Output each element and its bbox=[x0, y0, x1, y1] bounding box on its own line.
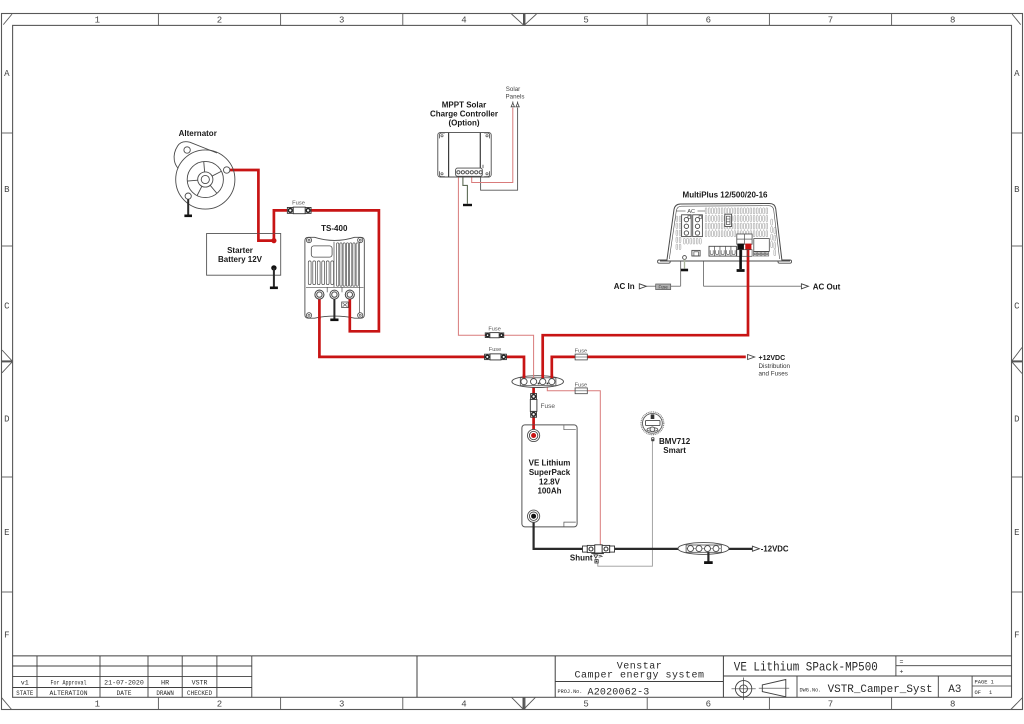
svg-text:AC: AC bbox=[687, 209, 695, 215]
svg-text:Distribution: Distribution bbox=[759, 363, 791, 370]
svg-text:Battery 12V: Battery 12V bbox=[218, 255, 263, 264]
svg-text:Shunt: Shunt bbox=[570, 553, 593, 562]
svg-text:CHECKED: CHECKED bbox=[187, 690, 212, 697]
svg-text:VE Lithium: VE Lithium bbox=[529, 459, 571, 468]
svg-text:Charge Controller: Charge Controller bbox=[430, 109, 498, 118]
svg-text:1: 1 bbox=[989, 690, 992, 696]
svg-text:Fuse: Fuse bbox=[575, 349, 587, 355]
svg-text:VSTR_Camper_Syst: VSTR_Camper_Syst bbox=[828, 684, 933, 696]
svg-text:VSTR: VSTR bbox=[192, 680, 208, 687]
svg-text:B: B bbox=[1014, 185, 1020, 195]
svg-text:+12VDC: +12VDC bbox=[759, 355, 786, 362]
svg-text:7: 7 bbox=[828, 16, 833, 26]
svg-text:12.8V: 12.8V bbox=[539, 477, 561, 486]
svg-text:Solar: Solar bbox=[506, 86, 520, 93]
svg-text:STATE: STATE bbox=[16, 690, 33, 697]
svg-text:OF: OF bbox=[975, 690, 981, 696]
svg-text:E: E bbox=[1014, 528, 1019, 538]
svg-text:6: 6 bbox=[706, 16, 711, 26]
svg-text:SuperPack: SuperPack bbox=[529, 468, 571, 477]
svg-text:C: C bbox=[1014, 302, 1020, 312]
svg-text:MultiPlus 12/500/20-16: MultiPlus 12/500/20-16 bbox=[683, 190, 768, 199]
svg-text:Smart: Smart bbox=[663, 446, 686, 455]
svg-text:AC In: AC In bbox=[614, 282, 635, 291]
svg-text:2: 2 bbox=[217, 700, 222, 710]
svg-text:A2020062-3: A2020062-3 bbox=[588, 687, 650, 698]
svg-text:4: 4 bbox=[461, 16, 466, 26]
svg-text:4: 4 bbox=[461, 700, 466, 710]
svg-text:E: E bbox=[4, 528, 9, 538]
svg-text:(Option): (Option) bbox=[448, 118, 479, 127]
svg-text:A: A bbox=[4, 69, 10, 79]
svg-text:Fuse: Fuse bbox=[575, 382, 587, 388]
svg-text:=: = bbox=[900, 658, 904, 665]
svg-text:VE Lithium SPack-MP500: VE Lithium SPack-MP500 bbox=[734, 660, 878, 674]
svg-text:DATE: DATE bbox=[117, 690, 132, 697]
svg-text:1: 1 bbox=[95, 700, 100, 710]
svg-text:2: 2 bbox=[217, 16, 222, 26]
svg-text:Starter: Starter bbox=[227, 246, 253, 255]
svg-text:8: 8 bbox=[950, 700, 955, 710]
svg-text:100Ah: 100Ah bbox=[537, 487, 561, 496]
svg-text:MPPT Solar: MPPT Solar bbox=[442, 100, 486, 109]
svg-text:F: F bbox=[4, 631, 9, 641]
svg-text:F: F bbox=[1014, 631, 1019, 641]
svg-text:5: 5 bbox=[583, 16, 588, 26]
svg-text:DWG.No.: DWG.No. bbox=[800, 687, 822, 693]
svg-text:ALTERATION: ALTERATION bbox=[50, 690, 88, 697]
svg-text:C: C bbox=[4, 302, 10, 312]
svg-text:+: + bbox=[900, 669, 904, 676]
svg-text:D: D bbox=[1014, 415, 1019, 425]
svg-text:B: B bbox=[4, 185, 10, 195]
svg-text:For Approval: For Approval bbox=[51, 680, 87, 687]
svg-text:D: D bbox=[4, 415, 9, 425]
svg-text:21-07-2020: 21-07-2020 bbox=[104, 680, 144, 687]
svg-text:PROJ.No.: PROJ.No. bbox=[558, 689, 583, 695]
svg-text:6: 6 bbox=[706, 700, 711, 710]
svg-text:BMV712: BMV712 bbox=[659, 437, 691, 446]
svg-text:Fuse: Fuse bbox=[488, 326, 500, 332]
svg-text:7: 7 bbox=[828, 700, 833, 710]
svg-text:A: A bbox=[1014, 69, 1020, 79]
svg-text:Camper energy system: Camper energy system bbox=[574, 671, 704, 682]
svg-text:A3: A3 bbox=[948, 684, 961, 696]
svg-text:Alternator: Alternator bbox=[179, 129, 217, 138]
svg-text:1: 1 bbox=[95, 16, 100, 26]
svg-text:v1: v1 bbox=[21, 680, 29, 687]
svg-text:3: 3 bbox=[339, 700, 344, 710]
svg-text:3: 3 bbox=[339, 16, 344, 26]
svg-text:8: 8 bbox=[950, 16, 955, 26]
svg-text:TS-400: TS-400 bbox=[321, 224, 348, 233]
svg-text:HR: HR bbox=[161, 680, 169, 687]
svg-text:PAGE 1: PAGE 1 bbox=[975, 680, 994, 686]
svg-text:5: 5 bbox=[583, 700, 588, 710]
svg-text:Fuse: Fuse bbox=[659, 284, 669, 289]
svg-text:and Fuses: and Fuses bbox=[759, 370, 788, 377]
svg-text:Panels: Panels bbox=[506, 93, 525, 100]
svg-text:Fuse: Fuse bbox=[489, 347, 501, 353]
svg-text:Fuse: Fuse bbox=[292, 200, 305, 206]
svg-text:Fuse: Fuse bbox=[541, 403, 556, 410]
svg-text:-12VDC: -12VDC bbox=[761, 545, 789, 554]
svg-text:AC Out: AC Out bbox=[813, 282, 841, 291]
svg-text:DRAWN: DRAWN bbox=[156, 690, 174, 697]
